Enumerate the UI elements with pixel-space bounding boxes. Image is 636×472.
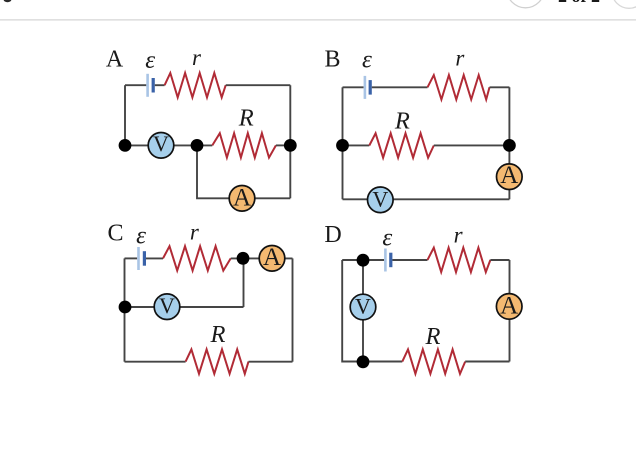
battery ε (D): short plate	[389, 253, 392, 268]
ammeter A (B)	[497, 162, 523, 190]
wire: C top, battery to resistor r	[146, 257, 163, 259]
ammeter A (A)	[229, 185, 255, 212]
battery ε (A): short plate	[152, 78, 155, 93]
svg-text:V: V	[159, 293, 175, 318]
voltmeter V (B)	[368, 186, 394, 212]
node: B right junction	[503, 139, 516, 152]
wire: C right vertical	[292, 258, 294, 361]
wire: A top-right segment	[226, 84, 291, 86]
wire: A ammeter branch (down, across bottom)	[197, 145, 290, 198]
wire: D bottom rail left segment	[363, 361, 402, 363]
svg-text:A: A	[500, 293, 518, 320]
ammeter A (C)	[259, 244, 285, 271]
top toolbar fragment: cut-off text at top-left	[4, 0, 12, 2]
wire: A top-left segment	[125, 84, 146, 86]
svg-text:D: D	[324, 222, 341, 248]
svg-text:R: R	[210, 321, 226, 348]
svg-text:R: R	[394, 108, 410, 135]
wire: D voltmeter branch	[362, 260, 364, 362]
wire: C left vertical	[124, 258, 126, 361]
voltmeter V (C)	[154, 293, 180, 320]
wire: B top-left segment	[343, 86, 364, 88]
svg-text:ε: ε	[382, 225, 392, 252]
wire: A middle rail right segment	[276, 144, 290, 146]
wire: B bottom rail	[343, 198, 510, 200]
wire: B top, battery to resistor r	[372, 86, 428, 88]
battery ε (D): long plate	[384, 249, 387, 272]
top toolbar fragment: right circular button (cut off)	[612, 0, 636, 8]
wire: D top-right segment	[490, 259, 509, 261]
wire: C top-left segment	[125, 257, 138, 259]
node: A right junction	[284, 139, 297, 152]
wire: B middle rail right segment	[434, 144, 510, 146]
svg-text:C: C	[107, 221, 123, 247]
voltmeter V (D)	[350, 293, 376, 320]
wire: C bottom rail right segment	[249, 361, 293, 363]
resistor R (D)	[402, 349, 465, 373]
svg-text:r: r	[455, 46, 465, 71]
battery ε (C): long plate	[137, 247, 140, 270]
battery ε (A): long plate	[146, 74, 149, 97]
wire: B middle rail left segment	[343, 144, 370, 146]
top toolbar fragment: left circular button (cut off)	[507, 0, 544, 8]
svg-text:r: r	[454, 222, 464, 247]
node: C left junction	[119, 301, 132, 314]
svg-text:A: A	[263, 244, 281, 271]
resistor r (D)	[428, 248, 491, 272]
svg-text:ε: ε	[362, 47, 372, 74]
voltmeter V (A)	[148, 131, 174, 158]
wire: C bottom rail left segment	[125, 361, 186, 363]
resistor R (A)	[212, 133, 276, 157]
node: D top junction	[357, 254, 370, 267]
svg-text:A: A	[106, 47, 124, 73]
resistor R (B)	[369, 133, 434, 157]
wire: D top, battery to resistor r	[392, 259, 427, 261]
resistor r (C)	[163, 246, 231, 270]
wire: D outer left loop	[342, 260, 363, 362]
svg-text:A: A	[233, 185, 251, 212]
node: A middle junction	[191, 139, 204, 152]
svg-text:2 of 2: 2 of 2	[558, 0, 600, 6]
wire: D bottom rail right segment	[465, 361, 509, 363]
svg-text:A: A	[500, 162, 518, 189]
resistor r (A)	[165, 73, 226, 97]
resistor R (C)	[186, 349, 249, 373]
svg-text:r: r	[190, 220, 200, 245]
wire: B top-right segment	[490, 86, 510, 88]
resistor r (B)	[428, 75, 490, 99]
svg-text:B: B	[324, 47, 340, 73]
wire: B left vertical	[342, 87, 344, 199]
ammeter A (D)	[496, 293, 522, 320]
svg-text:V: V	[153, 131, 169, 156]
wire: D right vertical	[509, 260, 511, 362]
node: D bottom junction	[357, 355, 370, 368]
battery ε (B): long plate	[364, 76, 367, 99]
node: A left junction	[119, 139, 132, 152]
battery ε (B): short plate	[369, 80, 372, 95]
svg-text:R: R	[425, 323, 441, 350]
wire: D top-left segment	[342, 259, 384, 261]
svg-text:ε: ε	[136, 223, 146, 250]
wire: A middle rail	[125, 144, 212, 146]
wire: A top, battery to resistor r	[155, 84, 165, 86]
svg-text:R: R	[238, 105, 254, 132]
node: C top junction	[237, 252, 250, 265]
wire: A right vertical	[289, 85, 291, 198]
svg-text:V: V	[372, 186, 388, 211]
wire: C riser from voltmeter rail to top node	[243, 258, 245, 307]
svg-text:r: r	[192, 45, 202, 70]
battery ε (C): short plate	[143, 251, 146, 266]
wire: B right vertical	[508, 87, 510, 199]
svg-text:ε: ε	[145, 47, 155, 74]
wire: A left vertical	[124, 85, 126, 145]
wire: C voltmeter rail	[125, 306, 244, 308]
wire: C top rail, resistor to right corner	[231, 257, 293, 259]
top divider line	[0, 19, 636, 21]
node: B left junction	[336, 139, 349, 152]
svg-text:V: V	[355, 293, 371, 318]
